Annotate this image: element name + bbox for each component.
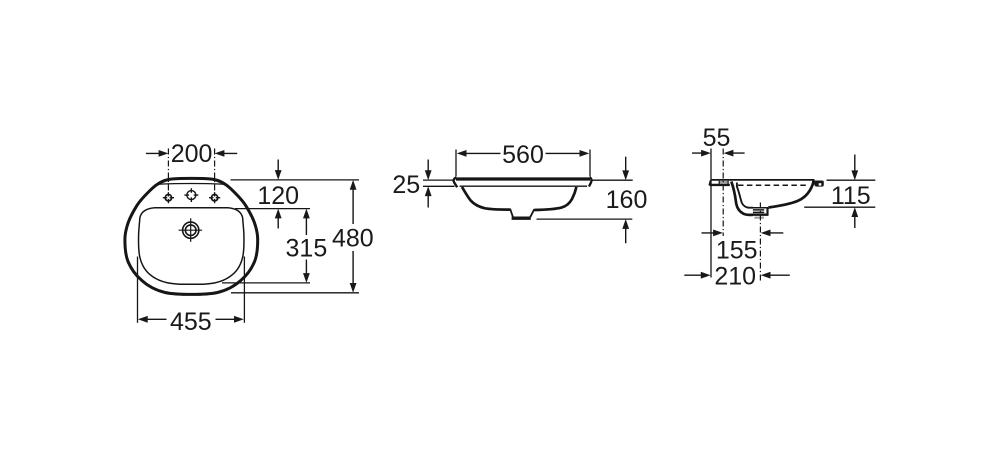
dim 120 leaders (231, 180, 360, 209)
side rim right cap notch (819, 183, 822, 185)
drain circles (183, 222, 199, 238)
side drain step block (766, 207, 768, 215)
dim 315 line (305, 218, 307, 274)
plan rim inner edge arc (top) (158, 182, 225, 185)
front drain (510, 209, 534, 218)
svg-text:25: 25 (392, 171, 420, 199)
dim 560 extension lines (456, 150, 590, 177)
svg-text:160: 160 (606, 186, 648, 214)
dim 200 arrows (146, 152, 237, 154)
svg-text:455: 455 (170, 308, 212, 336)
drain crosshair (179, 218, 203, 242)
front bowl right (534, 187, 576, 210)
side hidden rim dashed line (738, 184, 808, 186)
front bowl left (462, 187, 510, 210)
side drain center line (759, 203, 761, 283)
svg-text:210: 210 (714, 262, 756, 290)
svg-text:155: 155 (716, 237, 758, 265)
svg-text:480: 480 (332, 224, 374, 252)
side faucet slot edges (719, 181, 728, 184)
dim 25 arrows (427, 160, 429, 208)
side ext line solid (710, 149, 712, 278)
dim 480 line (352, 189, 354, 283)
side rim top line (711, 179, 815, 181)
plan inner basin outline (138, 208, 244, 284)
dim 315 bottom leader (222, 282, 310, 284)
dim 455 dimension line (147, 318, 234, 320)
side bowl shell curve (768, 180, 813, 207)
side center line 55 (722, 149, 724, 237)
front rim bottom line (460, 185, 588, 187)
svg-text:315: 315 (286, 234, 328, 262)
svg-text:560: 560 (502, 141, 544, 169)
side rim bottom edge (709, 184, 729, 186)
dim 160 arrows (625, 157, 627, 244)
front rim top line (456, 177, 590, 180)
side rim right cap (814, 180, 824, 186)
dim 25 leaders (423, 180, 455, 186)
plan outer rim outline (125, 178, 258, 294)
faucet hole right (209, 192, 220, 203)
svg-text:200: 200 (171, 140, 213, 168)
side drain dark bar (752, 213, 768, 215)
dim 115 arrows (854, 155, 856, 229)
dim 200 center lines (168, 149, 214, 196)
svg-text:115: 115 (831, 182, 871, 210)
front rim left cap (454, 178, 458, 188)
side front wall inner (737, 183, 753, 208)
dim 55 arrows (692, 152, 745, 154)
side rim left cap (709, 180, 710, 185)
dim 120 arrows (277, 160, 279, 229)
side drain grey bar (754, 217, 764, 219)
side front wall outer (731, 182, 753, 215)
svg-text:120: 120 (257, 182, 299, 210)
dim 115 leaders (804, 180, 875, 207)
dim 480 bottom leader (231, 292, 359, 294)
front rim right cap (589, 178, 592, 187)
side drain hatch lines (752, 208, 768, 213)
dim 160 leaders (537, 180, 633, 219)
dim 455 extension lines (138, 257, 245, 323)
faucet hole middle (184, 188, 198, 202)
dim 210 arrows (684, 274, 790, 276)
dim 560 dimension line (466, 152, 580, 154)
svg-text:55: 55 (703, 124, 731, 152)
faucet hole left (163, 192, 174, 203)
side faucet slot grey (719, 181, 728, 184)
dim 155 arrows (702, 232, 784, 234)
